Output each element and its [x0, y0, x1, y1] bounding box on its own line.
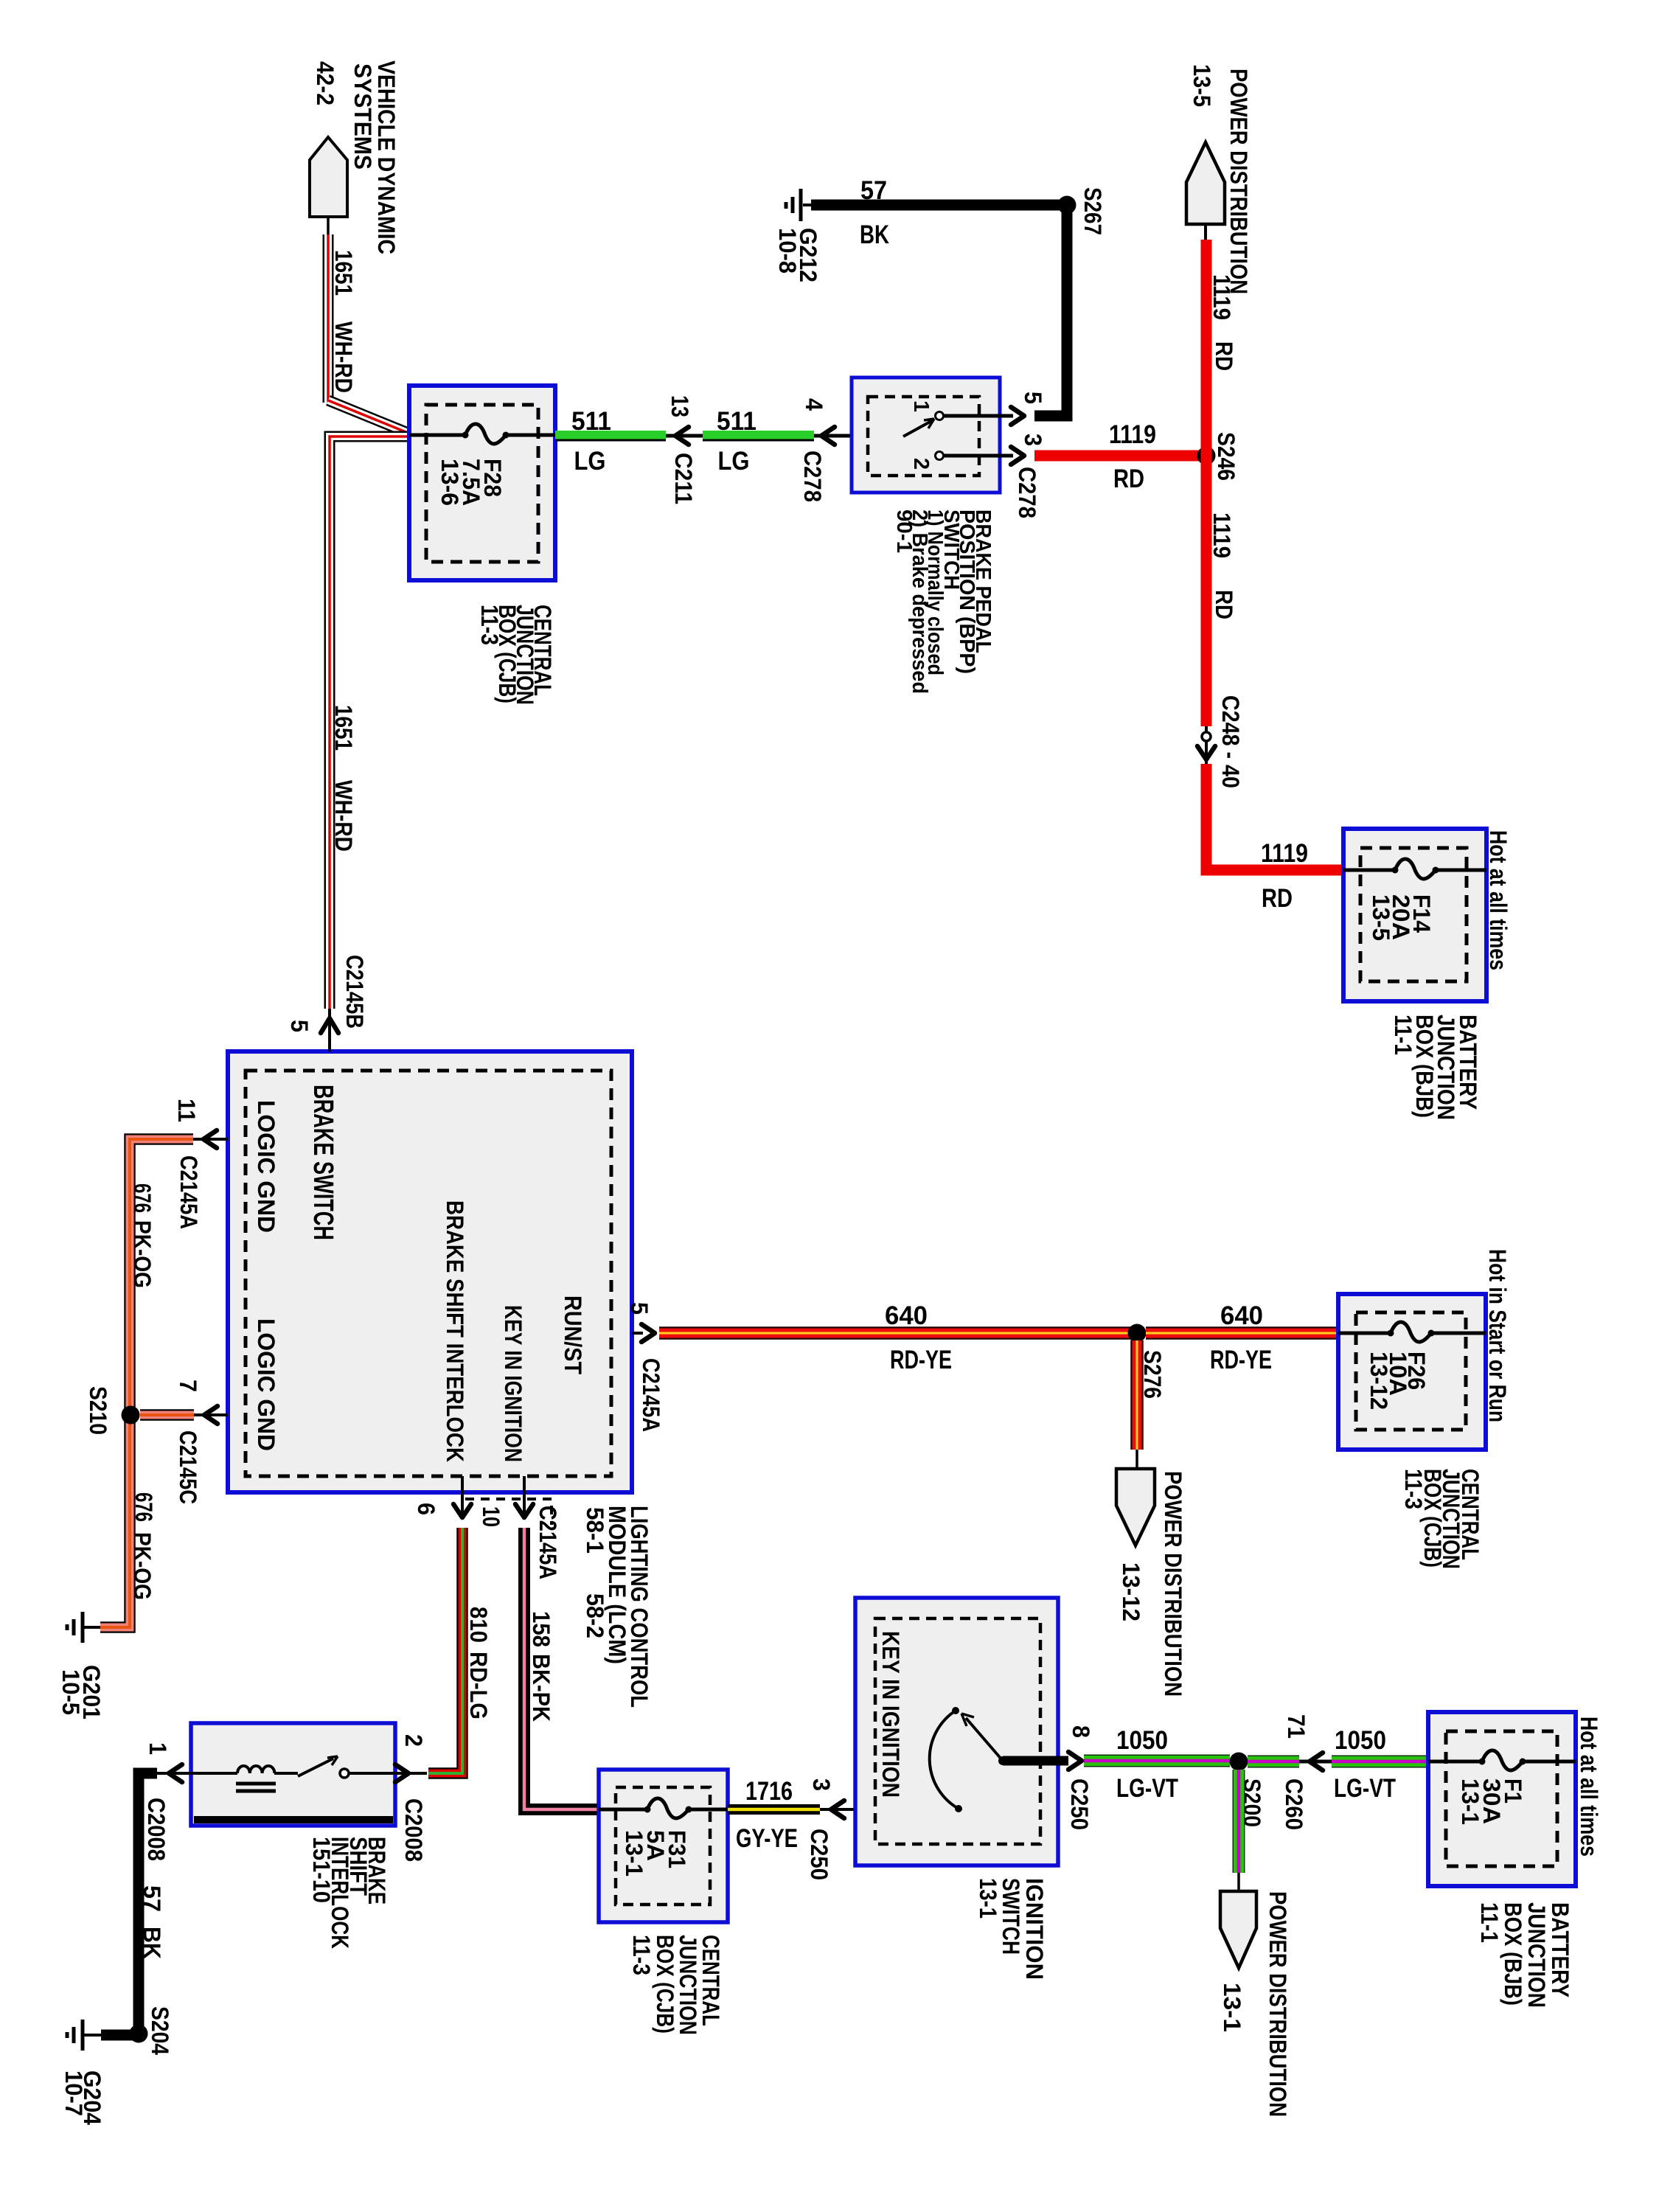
wire 57 BK (interlock pin 1 to S204) — [139, 1773, 157, 2034]
svg-text:LG-VT: LG-VT — [1334, 1774, 1396, 1803]
svg-text:11-3: 11-3 — [1400, 1469, 1427, 1509]
svg-text:BK-PK: BK-PK — [528, 1654, 554, 1722]
svg-text:RD-YE: RD-YE — [890, 1346, 952, 1374]
svg-text:13: 13 — [667, 395, 693, 417]
label F26 10A 13-12 — [1366, 1352, 1430, 1410]
svg-text:Hot at all times: Hot at all times — [1576, 1717, 1602, 1857]
svg-text:1716: 1716 — [745, 1777, 793, 1806]
svg-text:10-5: 10-5 — [58, 1669, 84, 1715]
svg-text:10-8: 10-8 — [774, 228, 801, 274]
wire 1050 LG-VT segment 1 — [1084, 1755, 1230, 1767]
svg-text:C2145C: C2145C — [175, 1430, 201, 1504]
svg-text:BOX (BJB): BOX (BJB) — [1500, 1902, 1526, 2006]
svg-text:640: 640 — [885, 1301, 928, 1330]
LCM pin 6 wire and arrow — [453, 1476, 471, 1517]
svg-text:640: 640 — [1220, 1301, 1263, 1330]
ignition switch contact dots — [952, 1707, 962, 1812]
svg-text:Hot at all times: Hot at all times — [1485, 830, 1512, 970]
svg-text:5: 5 — [286, 1020, 313, 1032]
wire 57 BK stub to G204 — [101, 2030, 139, 2041]
svg-text:LOGIC GND: LOGIC GND — [253, 1100, 279, 1233]
wire 1651 WH-RD from VDS arrow (vertical) — [323, 234, 334, 403]
label CENTRAL JUNCTION BOX (CJB) 11-3 (F26) — [1400, 1469, 1484, 1569]
svg-text:C248 - 40: C248 - 40 — [1217, 695, 1244, 788]
connector C2145A dashed outline at pins 6/10 — [465, 1499, 552, 1525]
wire 1716 GY-YE — [728, 1804, 820, 1815]
svg-text:5: 5 — [1020, 392, 1046, 404]
label BRAKE SHIFT INTERLOCK 151-10 — [308, 1837, 390, 1949]
svg-text:151-10: 151-10 — [308, 1837, 335, 1903]
svg-text:LG-VT: LG-VT — [1116, 1774, 1178, 1803]
svg-text:13-1: 13-1 — [975, 1878, 1001, 1919]
splice S267 — [1058, 196, 1077, 215]
svg-text:13-5: 13-5 — [1189, 64, 1215, 107]
svg-text:BK: BK — [860, 220, 889, 249]
fuse F1 symbol — [1428, 1750, 1576, 1770]
BPP switch contact 2 — [936, 452, 944, 460]
svg-text:GY-YE: GY-YE — [736, 1824, 798, 1853]
ground G204 — [67, 2020, 101, 2051]
svg-text:RUN/ST: RUN/ST — [560, 1295, 586, 1374]
wire 1050 LG-VT vertical from S200 — [1233, 1770, 1245, 1873]
svg-text:1: 1 — [145, 1742, 171, 1755]
inline connector C248 — [1197, 726, 1215, 765]
svg-text:4: 4 — [801, 398, 827, 411]
fuse F28 symbol — [409, 424, 555, 444]
svg-text:5: 5 — [626, 1302, 653, 1315]
svg-text:POWER DISTRIBUTION: POWER DISTRIBUTION — [1265, 1891, 1291, 2117]
svg-text:810: 810 — [465, 1607, 492, 1643]
svg-text:BK: BK — [139, 1927, 165, 1959]
svg-text:C2145A: C2145A — [638, 1358, 664, 1432]
ignition switch pin 3 wire and arrow — [820, 1801, 956, 1818]
wire 640 RD-YE segment 2 — [1146, 1326, 1338, 1340]
BPP pin 2 wire and arrow (pin 3) — [944, 447, 1024, 465]
wire 1050 LG-VT segment 2 (S200 to C260) — [1248, 1756, 1299, 1768]
splice S204 — [130, 2025, 148, 2043]
fuse box F28 (CJB) — [409, 386, 555, 580]
lighting control module box (LCM) — [228, 1051, 632, 1492]
ignition switch box — [855, 1598, 1058, 1865]
ground G201 — [67, 1612, 100, 1643]
svg-text:SYSTEMS: SYSTEMS — [349, 63, 376, 170]
label F31 5A 13-1 — [621, 1830, 690, 1877]
svg-text:VEHICLE DYNAMIC: VEHICLE DYNAMIC — [373, 60, 400, 254]
label F1 30A 13-1 — [1457, 1778, 1526, 1825]
interlock switch contact — [340, 1769, 349, 1778]
svg-text:C278: C278 — [1014, 467, 1040, 518]
interlock switch arm — [274, 1756, 338, 1776]
svg-text:C211: C211 — [670, 453, 697, 504]
svg-text:1: 1 — [909, 400, 933, 412]
off-page arrow POWER DISTRIBUTION 13-1 — [1220, 1873, 1256, 1968]
label IGNITION SWITCH 13-1 — [975, 1878, 1048, 1980]
svg-text:7: 7 — [175, 1380, 201, 1392]
fuse box F1 (BJB) — [1428, 1712, 1576, 1886]
LCM pin 7 wire and arrow — [194, 1406, 228, 1424]
svg-text:13-6: 13-6 — [437, 459, 463, 506]
wire 676 PK-OG (pin 11 to S210 to G201) — [100, 1139, 193, 1627]
connector C211 arrow — [666, 427, 703, 445]
svg-text:C260: C260 — [1281, 1778, 1307, 1830]
wire 676 PK-OG stub (S210 to pin 7) — [140, 1409, 194, 1421]
svg-text:11-3: 11-3 — [476, 605, 503, 645]
wire WH-RD diagonal into F28 — [328, 400, 408, 433]
svg-text:57: 57 — [860, 176, 887, 205]
svg-text:13-5: 13-5 — [1368, 894, 1394, 941]
svg-text:3: 3 — [1020, 434, 1046, 446]
svg-text:1119: 1119 — [1208, 274, 1235, 320]
svg-text:BRAKE SWITCH: BRAKE SWITCH — [307, 1085, 338, 1240]
svg-text:2: 2 — [909, 458, 933, 470]
svg-text:S267: S267 — [1079, 187, 1106, 235]
wire 1119 RD vertical (power distribution to S246 to C248) — [1201, 240, 1212, 726]
wire 1651 WH-RD to LCM pin 5 (vertical with elbow) — [330, 437, 408, 1009]
svg-text:LOGIC GND: LOGIC GND — [253, 1318, 279, 1451]
svg-text:1119: 1119 — [1208, 512, 1235, 558]
svg-text:JUNCTION: JUNCTION — [1523, 1902, 1550, 2008]
svg-text:KEY IN IGNITION: KEY IN IGNITION — [877, 1631, 904, 1798]
splice S200 — [1230, 1753, 1248, 1771]
svg-text:511: 511 — [571, 407, 611, 436]
connector C278 arrow (pin 4) — [814, 427, 903, 445]
label F28 7.5A 13-6 — [437, 459, 506, 506]
svg-text:42-2: 42-2 — [312, 61, 338, 105]
connector C260 arrow — [1299, 1753, 1332, 1770]
svg-text:PK-OG: PK-OG — [129, 1532, 156, 1600]
interlock internal wire (left) — [191, 1772, 237, 1775]
svg-text:WH-RD: WH-RD — [330, 321, 357, 393]
svg-text:13-12: 13-12 — [1366, 1352, 1392, 1410]
off-page arrow POWER DISTRIBUTION 13-5 — [1186, 142, 1225, 241]
BPP switch contact 1 — [936, 412, 944, 420]
fuse box F31 (CJB) — [599, 1770, 728, 1922]
label F14 20A 13-5 — [1368, 894, 1435, 941]
svg-text:C2008: C2008 — [143, 1798, 170, 1861]
splice S276 — [1128, 1324, 1147, 1343]
svg-text:RD: RD — [1211, 590, 1237, 619]
svg-text:C2008: C2008 — [400, 1798, 427, 1862]
svg-text:KEY IN IGNITION: KEY IN IGNITION — [500, 1305, 526, 1462]
svg-text:LG: LG — [718, 447, 750, 476]
svg-text:POWER DISTRIBUTION: POWER DISTRIBUTION — [1160, 1471, 1186, 1697]
ignition switch rotor arm — [961, 1714, 1007, 1765]
svg-text:13-1: 13-1 — [1457, 1778, 1484, 1825]
svg-text:RD: RD — [1211, 341, 1237, 371]
wire 511 LG segment 1 — [555, 436, 666, 440]
LCM pin 10 wire and arrow — [515, 1476, 533, 1517]
ignition pin 8 wire and arrow — [1003, 1752, 1082, 1770]
svg-text:511: 511 — [717, 407, 757, 436]
svg-text:11: 11 — [173, 1099, 200, 1122]
label G212 10-8 — [774, 228, 821, 282]
svg-text:10: 10 — [478, 1506, 504, 1527]
label BRAKE PEDAL POSITION (BPP) SWITCH notes — [892, 509, 995, 694]
svg-text:BRAKE SHIFT INTERLOCK: BRAKE SHIFT INTERLOCK — [442, 1200, 468, 1462]
svg-text:C250: C250 — [806, 1829, 832, 1880]
svg-text:13-1: 13-1 — [1219, 1983, 1245, 2032]
fuse box F14 (BJB) — [1343, 829, 1486, 1001]
splice S246 — [1197, 447, 1216, 465]
fuse F31 symbol — [599, 1798, 728, 1818]
svg-text:158: 158 — [528, 1611, 554, 1647]
fuse F26 symbol — [1338, 1322, 1486, 1342]
svg-text:676: 676 — [131, 1492, 157, 1522]
svg-text:90-1: 90-1 — [892, 509, 916, 553]
svg-text:RD: RD — [1262, 884, 1293, 913]
interlock pin 1 wire and arrow — [157, 1764, 191, 1782]
svg-text:6: 6 — [413, 1503, 439, 1515]
svg-text:1050: 1050 — [1116, 1726, 1168, 1755]
svg-text:58-2: 58-2 — [582, 1593, 608, 1638]
wire 810 RD-LG (pin 6 to interlock pin 2) — [428, 1528, 462, 1773]
svg-text:S204: S204 — [147, 2006, 173, 2055]
svg-text:57: 57 — [139, 1885, 165, 1912]
svg-text:S210: S210 — [85, 1386, 111, 1435]
svg-text:2: 2 — [400, 1734, 427, 1747]
svg-text:WH-RD: WH-RD — [330, 780, 357, 852]
svg-text:3: 3 — [808, 1778, 835, 1791]
brake shift interlock box — [191, 1723, 395, 1826]
LCM pin 5 right wire and arrow (RUN/ST) — [632, 1324, 655, 1342]
label VEHICLE DYNAMIC SYSTEMS — [349, 60, 400, 254]
svg-text:S246: S246 — [1213, 432, 1239, 481]
svg-text:1651: 1651 — [330, 250, 357, 296]
svg-text:13-12: 13-12 — [1118, 1562, 1144, 1621]
wire 158 BK-PK (pin 10 to F31) — [524, 1528, 599, 1809]
ignition switch travel arc — [930, 1711, 959, 1809]
svg-text:Hot in Start or Run: Hot in Start or Run — [1484, 1249, 1511, 1422]
svg-text:11-1: 11-1 — [1390, 1015, 1416, 1055]
BPP switch arm — [903, 419, 934, 437]
LCM pin 5 top wire and arrow — [321, 1009, 338, 1051]
svg-text:71: 71 — [1283, 1714, 1310, 1739]
svg-text:C2145A: C2145A — [175, 1155, 202, 1229]
fuse box F26 (CJB) — [1338, 1294, 1486, 1450]
svg-text:676: 676 — [129, 1183, 156, 1213]
svg-text:BOX (CJB): BOX (CJB) — [652, 1935, 678, 2034]
svg-text:BATTERY: BATTERY — [1547, 1902, 1573, 1997]
splice S210 — [122, 1406, 140, 1425]
label G204 10-7 — [60, 2070, 105, 2125]
interlock pin 2 wire and arrow — [395, 1764, 427, 1782]
svg-text:13-1: 13-1 — [621, 1830, 647, 1877]
svg-text:C2145A: C2145A — [535, 1506, 561, 1579]
wire 1050 LG-VT segment 3 (C260 to F1) — [1332, 1756, 1428, 1768]
wire 511 LG segment 2 — [703, 436, 814, 440]
svg-text:C278: C278 — [799, 451, 826, 502]
LCM pin 11 wire and arrow — [193, 1130, 228, 1148]
off-page arrow VEHICLE DYNAMIC SYSTEMS — [310, 137, 347, 237]
wire 1119 RD elbow to F14 — [1206, 764, 1343, 870]
label BATTERY JUNCTION BOX (BJB) 11-1 (F1) — [1476, 1902, 1573, 2008]
svg-text:RD-YE: RD-YE — [1210, 1346, 1272, 1374]
ground G212 — [786, 189, 811, 221]
wire 640 RD-YE segment 1 — [659, 1326, 1137, 1340]
label CENTRAL JUNCTION BOX (CJB) 11-3 (under F28) — [476, 605, 556, 705]
svg-text:11-1: 11-1 — [1476, 1902, 1503, 1943]
svg-text:1119: 1119 — [1109, 420, 1156, 449]
svg-text:11-3: 11-3 — [628, 1935, 655, 1975]
svg-text:10-7: 10-7 — [60, 2070, 87, 2116]
svg-text:1119: 1119 — [1261, 839, 1308, 868]
svg-text:LG: LG — [574, 447, 606, 476]
label LIGHTING CONTROL MODULE (LCM) 58-1 58-2 — [582, 1506, 653, 1708]
svg-text:1651: 1651 — [330, 705, 357, 751]
svg-text:C2145B: C2145B — [341, 955, 368, 1029]
solenoid coil — [236, 1766, 276, 1791]
svg-text:C250: C250 — [1066, 1778, 1093, 1830]
svg-text:RD: RD — [1113, 465, 1144, 493]
label G201 10-5 — [58, 1665, 105, 1719]
label CENTRAL JUNCTION BOX (CJB) 11-3 (F31) — [628, 1935, 724, 2035]
svg-text:1050: 1050 — [1335, 1726, 1386, 1755]
BPP pin 1 wire and arrow (pin 5) — [944, 407, 1024, 425]
off-page arrow POWER DISTRIBUTION 13-12 — [1116, 1450, 1155, 1545]
wire 1119 RD from BPP pin 3 to S246 — [1034, 451, 1206, 462]
svg-text:58-1: 58-1 — [582, 1507, 608, 1554]
brake pedal position switch box — [852, 378, 1000, 493]
wire 57 BK down to BPP pin 5 — [1034, 210, 1067, 416]
fuse F14 symbol — [1343, 859, 1486, 879]
wire 57 BK (horizontal) — [811, 200, 1067, 211]
svg-text:RD-LG: RD-LG — [465, 1652, 492, 1719]
svg-text:IGNITION: IGNITION — [1021, 1878, 1048, 1980]
interlock internal wire (right) — [349, 1772, 395, 1775]
svg-text:PK-OG: PK-OG — [129, 1220, 156, 1288]
wire 640 RD-YE vertical from S276 — [1130, 1340, 1144, 1450]
label BATTERY JUNCTION BOX (BJB) 11-1 (F14) — [1390, 1015, 1481, 1120]
svg-text:POWER DISTRIBUTION: POWER DISTRIBUTION — [1225, 69, 1252, 294]
svg-text:8: 8 — [1068, 1725, 1094, 1738]
